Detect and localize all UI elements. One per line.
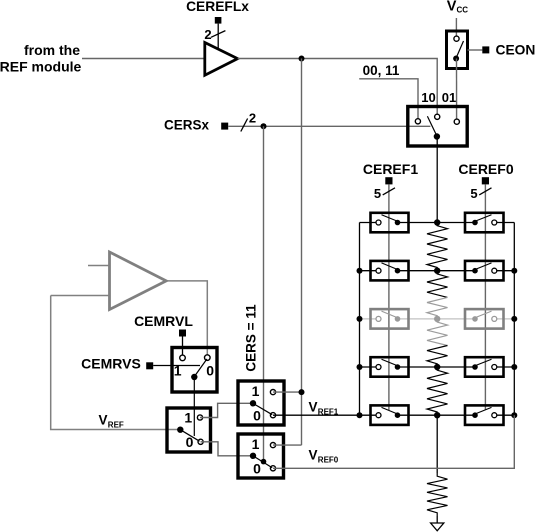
svg-text:REF: REF [108,421,124,430]
switch S1 lever [456,41,463,58]
wire Vcc to switch S1 [455,18,457,37]
op-amp U2 (gray, optional buffer) [110,252,167,310]
wire row2 center to right switch [437,270,475,272]
bus-width slash on CEREF0 line [479,188,491,195]
svg-text:CEREF0: CEREF0 [458,161,513,177]
wire CERSx to 3-way switch lever [228,125,430,127]
svg-text:0: 0 [206,363,214,379]
svg-text:1: 1 [252,436,260,452]
resistor R1 (ladder top segment) [427,223,448,271]
label CERSx [164,118,210,133]
label CEMRVL [134,313,193,329]
wire row3 left rail [360,318,379,320]
svg-text:10: 10 [421,90,435,105]
buffer U1 (reference buffer) [205,43,238,76]
label 0 in S3 [206,363,214,379]
node: from the REF module label [0,42,82,75]
S2 lever [427,116,437,136]
switch S6 box [238,434,284,478]
switch S6 pole dot [250,453,256,459]
tap switch SR3 contact [492,316,497,321]
wire row5 left rail [360,414,379,416]
tap switch SR2 contact [492,268,497,273]
wire resistor R5 to ground [436,516,438,523]
tap switch SL2 contact [376,268,381,273]
label 10 [421,90,435,105]
tap switch SL4 lever [382,359,398,366]
switch S3 contact 0 [205,355,211,361]
ground symbol [431,523,444,531]
tap switch SR3 box [465,309,504,329]
tap switch SL5 pole dot [395,412,401,418]
tap switch SR1 pole dot [472,220,478,226]
resistor R5 (bottom to ground) [427,473,448,516]
wire S5 contact1 to node A line [273,391,302,393]
label 5 (CEREF0 bus width) [470,186,477,201]
wire CEREFLx control into buffer [217,24,219,50]
bus-width slash on CEREF1 line [383,188,395,195]
switch S3 contact 1 [180,355,186,361]
port square CEREFLx [215,17,222,24]
label 1 in S3 [174,363,182,379]
svg-text:CEMRVL: CEMRVL [134,313,193,329]
tap switch SR1 lever [475,215,492,222]
wire row1 right switch output [494,222,514,224]
tap switch SR3 pole dot [472,316,478,322]
label CEMRVS [81,356,141,372]
tap switch SL1 box [371,213,409,233]
wire CEMRVS to switch S3 lever [153,365,200,367]
svg-text:0: 0 [253,408,261,424]
label CEREF0 [458,161,513,177]
tap switch SR1 contact [492,220,497,225]
svg-text:V: V [447,0,457,15]
switch S3 pole dot [191,374,197,380]
wire op-amp output to CEMRVS switch [166,281,207,356]
ladder node dot row2 [434,268,440,274]
switch S4 pole dot [177,427,183,433]
bus-width slash on CEREFLx line [211,31,225,38]
svg-text:1: 1 [174,363,182,379]
svg-text:V: V [309,400,318,415]
tap switch SL5 lever [382,407,398,414]
label CEON [496,42,535,57]
label VREF1 [309,400,339,417]
wire op-amp non-inverting input stub [88,265,110,267]
svg-text:2: 2 [249,111,256,126]
wire row4 center to right switch [437,366,475,368]
wire row2 left rail [360,270,379,272]
switch S3 box [172,348,217,393]
wire VREF1 output to ladder left bus [273,414,360,416]
svg-text:V: V [309,448,318,463]
label 01 [442,90,456,105]
wire row3 right switch output [494,318,514,320]
tap switch SL2 pole dot [395,268,401,274]
wire row2 right switch output [494,270,514,272]
svg-text:1: 1 [252,383,260,399]
right bus junction dot row4 [511,364,517,370]
tap switch SL4 pole dot [395,364,401,370]
port square CERSx [221,123,228,130]
tap switch SL2 box [371,261,409,281]
node junction dot CERSx branch [261,123,267,129]
label VREF0 [309,448,339,465]
left bus junction dot row3 [357,316,363,322]
ladder node dot row5 [434,412,440,418]
wire ladder bottom from row5 node [436,415,438,473]
wire row1 center to right switch [437,222,475,224]
label 1 in S6 [252,436,260,452]
label 1 in S4 [184,410,192,426]
svg-text:CC: CC [457,6,469,15]
wire node A down to VREF1/VREF0 switch inputs [301,59,303,446]
switch S1 (CEON) box [447,31,468,69]
tap switch SL1 contact [376,220,381,225]
ladder node dot row4 [434,364,440,370]
svg-text:REF module: REF module [0,59,82,75]
tap switch SR3 lever [475,311,492,318]
tap switch SR4 lever [475,359,492,366]
label 1 in S5 [252,383,260,399]
switch S6 lever [253,456,272,468]
label 5 (CEREF1 bus width) [374,186,381,201]
wire row5 left switch output [398,414,438,416]
resistor R2 upper half [427,271,448,298]
left bus junction dot row4 [357,364,363,370]
wire row1 left switch output [398,222,438,224]
wire row5 right switch output [494,414,514,416]
right bus junction dot row5 [511,412,517,418]
wire CEREF0 select bus down right switch column [484,184,486,410]
svg-text:from the: from the [24,42,80,58]
switch S4 contact 1 [197,415,202,420]
left bus junction dot row5 [357,412,363,418]
tap switch SR4 contact [492,365,497,370]
label CERS = 11 (rotated) [244,304,259,372]
wire S2 pole down to resistor ladder top [436,137,438,223]
wire S3 pole down to S4 lever [193,377,195,436]
wire row4 left rail [360,366,379,368]
svg-text:00, 11: 00, 11 [363,63,400,78]
ladder node dot row3 [434,316,440,322]
ladder node dot row1 [434,219,440,225]
S2 contact 00/11 [415,119,420,124]
wire S4 contact0 to S6 pole [201,442,253,456]
wire CEON to switch S1 [468,49,483,51]
label CEREF1 [363,161,418,177]
svg-text:CERSx: CERSx [164,118,210,133]
node dot CERS control on S6 lever [261,459,267,465]
wire VREF0 output to ladder right bus [273,415,514,468]
S2 contact 01 [454,119,459,124]
wire CEMRVL to switch S3 [182,337,184,356]
tap switch SL3 pole dot [395,316,401,322]
svg-text:1: 1 [184,410,192,426]
switch S6 contact 1 [270,443,275,448]
svg-text:CERS = 11: CERS = 11 [244,304,259,372]
node junction dot on node A line [299,389,305,395]
svg-text:01: 01 [442,90,456,105]
port square CEMRVS [146,362,153,369]
svg-text:V: V [99,413,108,428]
3-way switch S2 box [408,107,467,147]
wire row3 left switch output [398,318,438,320]
tap switch SL4 contact [376,365,381,370]
svg-text:5: 5 [374,186,381,201]
wire row1 left rail [360,222,379,224]
svg-text:5: 5 [470,186,477,201]
switch S5 contact 1 [270,390,275,395]
wire row3 center to right switch [437,318,475,320]
switch S6 contact 0 [270,466,275,471]
wire buffer output to 3-way switch [238,59,438,115]
switch S1 input contact [454,36,459,41]
label Vcc [447,0,468,15]
svg-text:CEON: CEON [496,42,535,57]
wire from REF module to buffer [82,58,204,60]
switch S4 box [167,408,211,452]
wire row4 left switch output [398,366,438,368]
switch S5 lever [253,403,272,414]
svg-text:CEREF1: CEREF1 [363,161,418,177]
resistor R3 lower half [427,346,448,368]
wire S1 pole to 3-way switch 01 input [456,59,458,120]
S2 pole dot [434,133,440,139]
resistor R2 lower half (faded continuation) [427,297,448,319]
wire left tap bus [359,223,361,416]
label CEREFLx [186,0,249,14]
label 00, 11 [363,63,400,78]
label 0 in S5 [253,408,261,424]
label 2 (CERSx bus width) [249,111,256,126]
tap switch SL4 box [371,357,409,377]
switch S5 box [238,381,284,425]
svg-text:REF0: REF0 [318,456,339,465]
tap switch SR4 pole dot [472,364,478,370]
node A junction dot on buffer output [299,56,305,62]
label VREF [99,413,124,430]
tap switch SL1 lever [382,215,398,222]
tap switch SR5 contact [492,413,497,418]
label 0 in S4 [186,434,194,450]
resistor R4 [427,367,448,415]
tap switch SL2 lever [382,263,398,270]
wire 00,11 position line [359,79,418,119]
tap switch SR2 box [465,261,504,281]
switch S4 lever [180,430,199,442]
port square CEMRVL [179,330,186,337]
right bus junction dot row3 [511,316,517,322]
wire CEREF1 select bus down left switch column [388,184,390,410]
tap switch SL5 box [371,405,409,425]
tap switch SL3 lever [382,311,398,318]
svg-text:0: 0 [253,461,261,477]
label 0 in S6 [253,461,261,477]
wire S6 contact1 to node A line [273,444,302,446]
left bus junction dot row2 [357,268,363,274]
bus-width slash on CERSx line [241,119,248,132]
svg-text:CEREFLx: CEREFLx [186,0,249,14]
switch S5 pole dot [250,400,256,406]
svg-text:2: 2 [204,27,211,42]
tap switch SL1 pole dot [395,220,401,226]
switch S4 contact 0 [198,439,203,444]
tap switch SR5 pole dot [472,412,478,418]
wire S4 contact1 to S5 pole [200,403,253,417]
tap switch SR2 pole dot [472,268,478,274]
wire row4 right switch output [494,366,514,368]
tap switch SR4 box [465,357,504,377]
switch S5 contact 0 [270,413,275,418]
port square CEREF1 [385,177,392,184]
wire row5 center to right switch [437,414,475,416]
S2 contact 10 [435,114,440,119]
wire VREF feedback path [51,296,178,430]
tap switch SL5 contact [376,413,381,418]
tap switch SR5 lever [475,407,492,414]
tap switch SR1 box [465,213,504,233]
svg-text:CEMRVS: CEMRVS [81,356,141,372]
port square CEREF0 [482,177,489,184]
resistor R3 upper half (faded continuation) [427,319,448,346]
switch S1 pole dot [453,56,459,62]
wire CERS control line down to VREF0 switch [263,126,265,461]
port square CEON [482,46,489,53]
tap switch SR5 box [465,405,504,425]
wire op-amp inverting input from VREF feedback [51,295,110,297]
right bus junction dot row2 [511,268,517,274]
wire row2 left switch output [398,270,438,272]
label 2 (CEREFLx bus width) [204,27,211,42]
tap switch SL3 box [371,309,409,329]
tap switch SL3 contact [376,316,381,321]
wire right tap bus [513,223,515,416]
switch S3 lever [194,359,207,377]
tap switch SR2 lever [475,263,492,270]
